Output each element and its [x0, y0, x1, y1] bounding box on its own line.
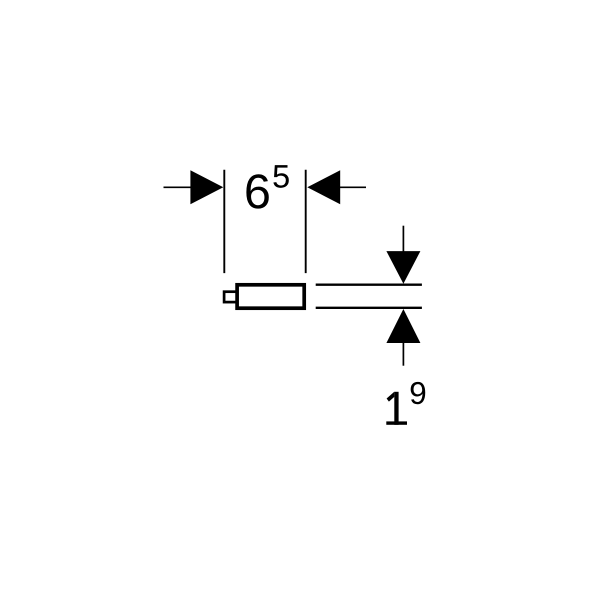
dimension 19 top tail line [402, 226, 404, 252]
dimension 65 right tail line [340, 186, 367, 188]
dimension label 6 [246, 174, 268, 208]
dimension 19 up arrowhead [386, 309, 420, 343]
dimension label superscript 9 [411, 382, 426, 404]
part: small tab (left spigot) [224, 292, 238, 302]
dimension 19 down arrowhead [386, 251, 420, 284]
dimension 19 bottom tail line [402, 342, 404, 366]
dimension 65 right arrowhead [307, 170, 340, 204]
dimension 65 left arrowhead [190, 170, 223, 204]
dimension 65 left tail line [164, 186, 193, 188]
part: top edge line extending right [316, 284, 422, 286]
dimension label superscript 5 [273, 165, 288, 188]
dimension 65 left extension line [223, 170, 225, 273]
part: bottom edge line extending right [316, 307, 422, 309]
dimension label 1 (drawn with foot serif) [386, 392, 407, 425]
dimension 65 right extension line [305, 170, 307, 273]
part: main body rectangle [237, 285, 304, 308]
